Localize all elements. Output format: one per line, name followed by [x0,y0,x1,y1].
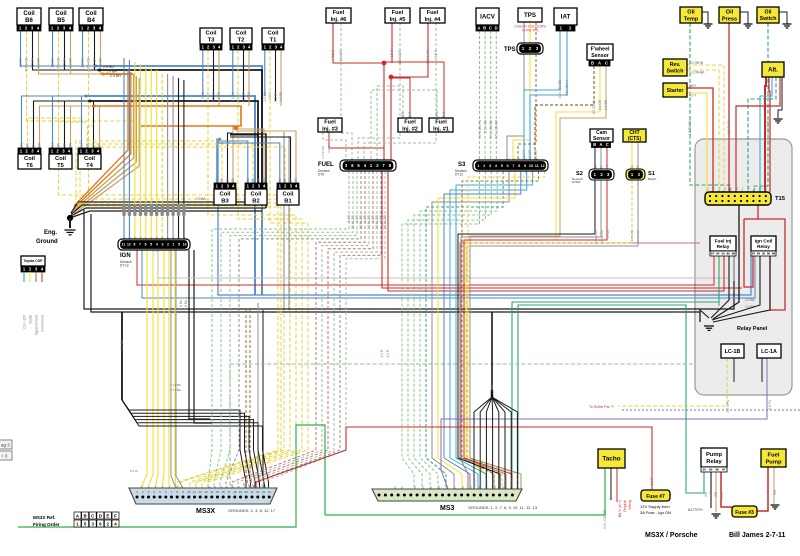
svg-text:Fuse #3: Fuse #3 [735,510,754,516]
svg-text:0.5 L-BU-BA: 0.5 L-BU-BA [558,79,562,98]
svg-text:T4: T4 [86,163,94,169]
svg-text:0.5 Y: 0.5 Y [268,91,272,99]
svg-text:0.5 R: 0.5 R [327,146,331,153]
svg-text:12: 12 [199,490,203,494]
svg-text:1.0 BR: 1.0 BR [279,91,283,101]
svg-text:Toyota COP: Toyota COP [23,259,43,263]
svg-text:Pump: Pump [706,452,723,458]
svg-text:1.6 BA: 1.6 BA [184,299,188,309]
svg-text:A: A [477,26,480,31]
svg-text:GN: GN [704,491,708,496]
svg-text:A: A [599,142,602,147]
svg-text:B: B [483,26,486,31]
svg-text:BR: BR [773,489,777,494]
svg-text:IACV: IACV [480,14,496,21]
svg-text:B: B [84,513,87,518]
svg-text:0.5 BA: 0.5 BA [479,478,483,486]
svg-text:S3: S3 [458,162,466,168]
svg-text:0.5 W-GR: 0.5 W-GR [321,146,325,158]
svg-text:0.5 BA: 0.5 BA [212,91,216,101]
svg-text:BR: BR [714,491,718,496]
svg-text:1.0 BU: 1.0 BU [231,91,235,101]
svg-text:8: 8 [518,164,520,168]
svg-text:(CTS): (CTS) [628,136,642,142]
svg-text:= 7.1 BA: = 7.1 BA [170,383,181,387]
svg-text:1.0 BR: 1.0 BR [69,57,73,67]
svg-text:2.0 BA: 2.0 BA [490,384,494,394]
svg-text:0.5 L-GN-PU: 0.5 L-GN-PU [478,119,482,138]
svg-text:0.5 BA: 0.5 BA [497,478,501,486]
svg-text:Oil: Oil [687,10,695,16]
svg-text:TPS: TPS [524,12,536,19]
svg-text:19: 19 [239,490,243,494]
svg-text:0.5 Y-OR: 0.5 Y-OR [87,57,91,71]
svg-text:Starter: Starter [667,88,684,94]
svg-text:Fuel: Fuel [768,453,780,459]
svg-text:24: 24 [268,490,272,494]
svg-text:0.5 BA: 0.5 BA [510,478,514,486]
svg-text:B5: B5 [57,18,65,24]
svg-text:1.0 BU: 1.0 BU [81,57,85,67]
svg-text:0.5 Y: 0.5 Y [206,91,210,99]
svg-text:Fuel: Fuel [427,10,439,16]
svg-text:7: 7 [512,164,514,168]
svg-text:B: B [593,142,596,147]
svg-text:B3: B3 [221,198,229,204]
svg-text:MS3X / Porsche: MS3X / Porsche [645,532,698,539]
svg-text:0.5 L-GN-OR: 0.5 L-GN-OR [603,509,607,528]
svg-text:1.0 BU: 1.0 BU [201,91,205,101]
svg-text:D: D [99,513,102,518]
svg-text:C: C [605,61,608,66]
svg-text:Sensor: Sensor [591,53,609,59]
svg-text:Alt.: Alt. [768,68,778,74]
svg-text:Coil: Coil [23,11,35,17]
svg-text:Coil: Coil [206,31,217,37]
svg-text:C: C [489,26,492,31]
svg-text:12V Supply from: 12V Supply from [640,504,670,509]
svg-text:Original: Original [623,500,627,512]
svg-text:Fuel: Fuel [392,10,404,16]
svg-text:2.0 BA: 2.0 BA [120,339,124,349]
svg-text:B4: B4 [87,18,95,24]
svg-text:Coil: Coil [55,156,66,162]
svg-text:0.5 Y-OR: 0.5 Y-OR [57,57,61,71]
svg-text:DTM3: DTM3 [572,180,580,184]
svg-text:Relay: Relay [706,459,722,465]
svg-text:Switch: Switch [667,68,684,74]
svg-text:MS3X Ref.: MS3X Ref. [33,515,55,520]
svg-text:Coil: Coil [220,192,231,198]
svg-text:0.5 GN-BA: 0.5 GN-BA [600,230,604,244]
svg-text:Bill James 2-7-11: Bill James 2-7-11 [729,532,786,539]
svg-text:Relay: Relay [717,244,730,250]
svg-text:Switch: Switch [760,16,777,22]
svg-text:0.5 L-GN-OR: 0.5 L-GN-OR [495,119,499,138]
svg-text:5: 5 [501,164,503,168]
svg-text:Bosch: Bosch [648,177,657,181]
svg-text:1.0 BU: 1.0 BU [51,57,55,67]
svg-text:0.5 R: 0.5 R [434,49,438,57]
svg-text:1: 1 [173,243,175,247]
svg-text:F'wheel: F'wheel [591,47,610,53]
svg-text:TPS: TPS [504,47,516,53]
svg-text:0.5 BA: 0.5 BA [472,478,476,486]
svg-text:T1: T1 [270,37,278,43]
svg-text:B6: B6 [25,18,33,24]
svg-text:3A Fuse - Ign ON: 3A Fuse - Ign ON [640,510,671,515]
svg-text:0.5 W-GR: 0.5 W-GR [383,214,387,229]
svg-text:0.5 Y-BU: 0.5 Y-BU [630,230,634,241]
svg-text:GROUNDS: 1, 2, 7, 8, 9, 10, 11: GROUNDS: 1, 2, 7, 8, 9, 10, 11, 12, 13 [468,505,538,510]
svg-text:0.5 BA: 0.5 BA [63,57,67,67]
svg-text:0.5 W-PK: 0.5 W-PK [426,49,430,63]
svg-text:A: A [598,61,601,66]
svg-text:84: 84 [757,252,761,256]
svg-text:Firing Order: Firing Order [33,522,60,527]
svg-text:0.5 L-GN: 0.5 L-GN [483,119,487,133]
svg-text:DT-12: DT-12 [120,264,129,268]
svg-text:Coil: Coil [251,192,262,198]
svg-text:0.5 Y: 0.5 Y [236,91,240,99]
svg-text:Ground: Ground [36,239,58,245]
svg-text:Inj. #1: Inj. #1 [433,126,449,132]
svg-text:1.0 R: 1.0 R [380,349,384,357]
svg-text:To Smbb Pw ??: To Smbb Pw ?? [589,405,614,409]
svg-text:17: 17 [227,490,231,494]
svg-text:BA-V (or Y): BA-V (or Y) [618,500,622,517]
svg-text:DT12: DT12 [455,173,463,177]
svg-text:Inj. #3: Inj. #3 [322,126,338,132]
svg-text:Inj. #2: Inj. #2 [402,126,418,132]
svg-text:1.6 BA: 1.6 BA [179,299,183,309]
svg-text:Tacho: Tacho [602,456,620,463]
svg-text:Rev.: Rev. [670,62,681,68]
svg-text:30: 30 [762,252,766,256]
svg-text:Wiring: Wiring [628,500,632,510]
svg-text:0.5 BA: 0.5 BA [274,91,278,101]
svg-text:1.0 R-GN: 1.0 R-GN [727,119,731,133]
svg-text:11: 11 [535,164,539,168]
svg-text:87: 87 [752,252,756,256]
svg-text:1.0 BR: 1.0 BR [247,91,251,101]
svg-text:10: 10 [759,187,763,191]
svg-text:1.0 BR: 1.0 BR [37,57,41,67]
svg-text:IGN: IGN [120,253,131,259]
svg-text:86: 86 [772,252,776,256]
svg-text:6: 6 [507,164,509,168]
svg-text:86: 86 [732,252,736,256]
svg-text:D: D [495,26,498,31]
svg-text:85: 85 [727,252,731,256]
svg-text:FUEL: FUEL [318,162,334,168]
svg-text:Inj. #5: Inj. #5 [390,17,406,23]
svg-text:85: 85 [767,252,771,256]
svg-text:LC-1B: LC-1B [725,349,741,355]
svg-text:0.5 W: 0.5 W [130,469,138,473]
svg-text:16 R: 16 R [689,84,696,88]
svg-text:0.5 GN: 0.5 GN [606,230,610,239]
svg-text:14: 14 [210,490,214,494]
svg-text:15: 15 [216,490,220,494]
svg-text:B: B [591,61,594,66]
svg-text:Eng.: Eng. [44,230,57,236]
svg-text:Inj. #4: Inj. #4 [425,17,442,23]
svg-text:4.0 Y: 4.0 Y [689,94,697,98]
svg-text:GROUNDS: 2, 3, 8, 12, 17: GROUNDS: 2, 3, 8, 12, 17 [228,508,276,513]
svg-text:0.5 GN-W: 0.5 GN-W [592,100,596,114]
svg-text:1.0 R: 1.0 R [386,349,390,357]
svg-text:Coil: Coil [268,31,279,37]
svg-text:T3: T3 [208,37,216,43]
svg-text:Oil: Oil [765,10,772,16]
svg-text:0.5 L-GN-BU: 0.5 L-GN-BU [489,119,493,138]
svg-text:10: 10 [529,164,533,168]
svg-text:0.5 L-BU-Y: 0.5 L-BU-Y [565,79,569,96]
svg-text:1.0 BU: 1.0 BU [263,91,267,101]
svg-text:22: 22 [256,490,260,494]
svg-text:3: 3 [161,243,163,247]
svg-text:0.5 BA: 0.5 BA [242,91,246,101]
svg-text:Fuel: Fuel [333,10,345,16]
svg-text:= 3: = 3 [1,454,8,459]
svg-text:T2: T2 [238,37,245,43]
svg-text:1: 1 [477,164,479,168]
svg-text:1.0 GN-BA: 1.0 GN-BA [688,119,692,135]
svg-text:Oil: Oil [726,10,734,16]
svg-text:87: 87 [722,468,726,472]
svg-text:T5: T5 [57,163,65,169]
svg-text:T15: T15 [775,196,786,202]
svg-text:0.5 R: 0.5 R [331,49,335,57]
svg-text:30: 30 [703,468,707,472]
svg-text:Press: Press [722,16,737,22]
svg-text:16: 16 [222,490,226,494]
svg-text:2.5 BR: 2.5 BR [110,74,121,78]
svg-text:6: 6 [145,243,147,247]
svg-text:86: 86 [716,468,720,472]
svg-text:Ign Coil: Ign Coil [755,238,773,244]
svg-text:Relay: Relay [757,244,770,250]
svg-text:9: 9 [178,243,180,247]
svg-text:Signal: Signal [29,315,33,324]
svg-text:0.5 W-GR: 0.5 W-GR [339,49,343,64]
svg-text:8: 8 [134,243,136,247]
svg-text:0.5 PU: 0.5 PU [768,399,772,409]
svg-text:0.5 Y-PU: 0.5 Y-PU [726,399,730,412]
svg-text:0.5 BR: 0.5 BR [604,99,608,109]
svg-text:1.0 BU: 1.0 BU [19,57,23,67]
svg-text:R-GN: R-GN [720,491,724,500]
svg-text:11: 11 [193,490,196,494]
svg-text:4: 4 [156,243,158,247]
svg-text:85: 85 [709,468,713,472]
svg-text:MS3X: MS3X [196,508,215,515]
svg-text:Fuel: Fuel [324,120,336,126]
svg-text:Fuel: Fuel [435,120,447,126]
svg-text:30: 30 [721,252,725,256]
svg-text:0.5 Y-OR: 0.5 Y-OR [25,57,29,71]
svg-text:0.5 BA: 0.5 BA [491,478,495,486]
svg-text:Coil +12V: Coil +12V [23,314,27,329]
svg-text:Relay Panel: Relay Panel [737,326,768,332]
svg-text:2.5 BU: 2.5 BU [103,65,114,69]
svg-text:Fuse #7: Fuse #7 [646,494,665,500]
svg-text:Pump: Pump [765,459,782,465]
svg-text:Coil: Coil [85,11,97,17]
svg-text:MS3: MS3 [440,505,455,512]
svg-text:0.5 GN-OR: 0.5 GN-OR [594,230,598,244]
svg-text:0.5 BA: 0.5 BA [31,57,35,67]
svg-text:DT8: DT8 [318,173,324,177]
svg-text:C: C [606,142,609,147]
svg-text:Fuel Inj: Fuel Inj [715,238,732,244]
svg-text:18: 18 [233,490,237,494]
svg-text:1.0 OR-W: 1.0 OR-W [689,61,703,65]
svg-text:B2: B2 [252,198,259,204]
svg-text:5: 5 [150,243,152,247]
svg-text:3: 3 [489,164,491,168]
svg-text:1.0 BA: 1.0 BA [106,70,117,74]
svg-text:Coil: Coil [283,192,294,198]
svg-text:0.5 BA: 0.5 BA [503,478,507,486]
svg-text:Coil: Coil [84,156,95,162]
svg-text:10: 10 [183,243,187,247]
svg-text:7: 7 [139,243,141,247]
svg-text:7.0 BA: 7.0 BA [196,197,206,201]
svg-text:+5 PW TPS: +5 PW TPS [522,29,539,33]
svg-text:Fuel: Fuel [404,120,416,126]
svg-text:1.0 OR-BA: 1.0 OR-BA [689,71,705,75]
svg-text:Coil Ground: Coil Ground [41,315,45,332]
svg-text:1.0 BR: 1.0 BR [217,91,221,101]
svg-text:B1: B1 [284,198,292,204]
svg-text:0.5 BA: 0.5 BA [516,478,520,486]
svg-text:11: 11 [765,187,768,191]
svg-text:= 7.1 BA: = 7.1 BA [170,388,181,392]
svg-text:13: 13 [204,490,208,494]
svg-text:9: 9 [524,164,526,168]
svg-text:20: 20 [245,490,249,494]
svg-text:0.5 BA: 0.5 BA [485,478,489,486]
svg-text:12: 12 [541,164,545,168]
svg-text:2: 2 [483,164,485,168]
svg-text:T6: T6 [26,163,34,169]
svg-text:Signal Ground: Signal Ground [35,315,39,336]
svg-text:1.0 BA: 1.0 BA [745,298,755,302]
svg-text:23: 23 [262,490,266,494]
svg-text:ag 3: ag 3 [1,443,10,448]
svg-text:4: 4 [495,164,497,168]
svg-text:IAT: IAT [561,14,571,21]
svg-text:BATTERY: BATTERY [688,508,704,512]
svg-text:0.5 OR: 0.5 OR [598,99,602,110]
svg-text:Coil: Coil [55,11,67,17]
svg-text:Coil: Coil [236,31,247,37]
svg-text:F: F [114,513,117,518]
svg-text:0.5 R: 0.5 R [390,49,394,57]
svg-text:E: E [106,513,109,518]
svg-text:84: 84 [716,252,720,256]
svg-text:10: 10 [187,490,191,494]
svg-text:Inj. #6: Inj. #6 [331,17,347,23]
svg-text:LC-1A: LC-1A [761,349,777,355]
svg-text:2: 2 [167,243,169,247]
svg-text:12: 12 [127,243,131,247]
svg-text:Temp: Temp [684,16,699,22]
svg-text:11: 11 [122,243,126,247]
svg-text:87: 87 [711,252,715,256]
svg-text:21: 21 [250,490,254,494]
svg-text:Coil: Coil [24,156,35,162]
